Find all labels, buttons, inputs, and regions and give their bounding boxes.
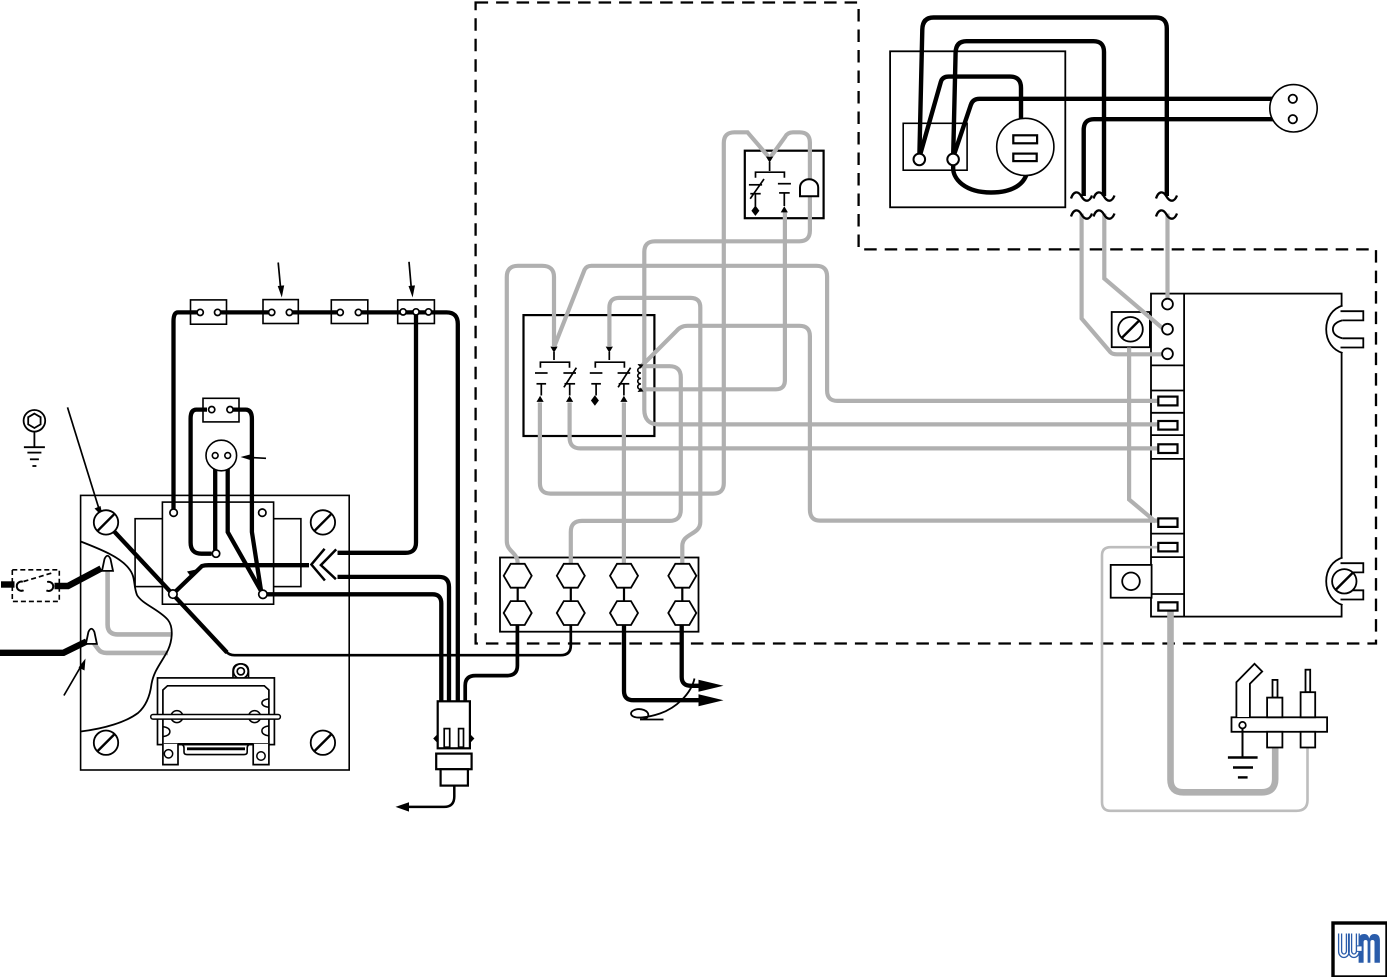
arrowhead on connector tail — [396, 802, 410, 811]
wire W9 relay coil top to strip terminal 2 — [571, 366, 681, 563]
wire chevron lower arm to plug connector pin 2 — [338, 577, 450, 702]
long arrow to ground screw — [68, 407, 100, 510]
limit switch S3 terminals — [337, 309, 343, 315]
thermostat cable from switch to strain relief 1 — [55, 569, 102, 587]
plug connector body — [438, 701, 470, 748]
wire blower prover right pin down — [228, 458, 261, 591]
relay K1 contact group 1 — [535, 352, 576, 396]
wire W11 line break 2 to module circle 2 — [1104, 214, 1162, 329]
gas valve outer body — [158, 678, 275, 745]
wire W4 relay coil top to module spade 4 — [642, 326, 1159, 521]
transformer mounting wings rectangle — [135, 519, 301, 587]
wire ground screw pigtail (diagonal) — [111, 528, 228, 653]
limit switch S2 box — [263, 300, 298, 324]
wire S5 left terminal U-loop to transformer center tap — [191, 410, 212, 554]
module U1 terminal column divider — [1183, 294, 1185, 617]
gas valve side notches — [163, 699, 269, 737]
junction box corner screw top-left — [94, 510, 118, 534]
arrow pointing to S4 — [409, 262, 411, 287]
Weil-McLain logo — [1333, 923, 1387, 977]
plug connector cap upper — [436, 754, 471, 770]
arrow pointing to blower prover — [249, 456, 266, 459]
receptacle lower slot — [1013, 154, 1036, 162]
wire service plug lower pin over to break 1 — [1084, 119, 1288, 196]
thermostat power cable stub — [1, 581, 15, 587]
limit switch S3 box — [331, 300, 368, 324]
wire loop receptacle lower slot to right terminal — [953, 162, 1028, 193]
module screw slot — [1122, 320, 1140, 338]
line-voltage junction box inner terminal plate — [903, 123, 967, 170]
pilot bracket ground lug — [1239, 722, 1246, 729]
gray pigtail G2 from strain relief 2 — [91, 640, 168, 653]
receptacle upper slot — [1013, 135, 1037, 143]
wire transformer lower-right tap to plug connector pin 1 — [267, 594, 441, 701]
wire strip terminal 4 bottom to field arrow — [682, 624, 701, 686]
field wiring arrowhead at strip terminal 3 — [699, 694, 724, 706]
module U1 column section dividers — [1151, 365, 1184, 594]
ignition module U1 body — [1151, 294, 1342, 617]
hex bolt ground symbol — [24, 410, 46, 466]
wire W13 module spade 5 to flame sensor (thin) — [1102, 547, 1308, 811]
strip terminal hex nuts column 2 — [557, 564, 585, 625]
wire strip terminal 1 bottom to plug connector pin 4 — [465, 624, 517, 702]
wire W12 line break 3 to module circle 1 — [1165, 214, 1169, 300]
strain relief cone 1 — [102, 556, 113, 571]
strip terminal hex nuts column 4 — [668, 564, 696, 625]
module lower block hole — [1122, 573, 1140, 591]
plug connector cap lower — [441, 769, 468, 785]
ground symbol at pilot — [1228, 758, 1258, 778]
module spade terminal 6 — [1158, 602, 1177, 610]
wire transformer lower-left tap to disconnect chevron — [176, 565, 310, 591]
wire W2 relay arm to module spade 1 — [555, 266, 1159, 401]
wire blower prover left pin down — [213, 458, 217, 551]
cable sheath outline inside junction box — [81, 542, 172, 732]
wire W1 relay coil-arm to strip terminal 1 — [507, 266, 554, 564]
blower prover pins — [212, 453, 218, 459]
wire W5 relay coil bottom to damper spade — [642, 211, 785, 389]
spill switch S4 terminals — [400, 309, 406, 315]
limit switch S1 box — [191, 300, 227, 324]
wire break symbol 3 — [1156, 192, 1177, 218]
wire S4 middle terminal to disconnect chevron — [338, 315, 417, 553]
wire break symbol 2 — [1094, 192, 1115, 218]
module terminal circle 1 — [1162, 299, 1173, 310]
wire W14 module spade 6 to igniter cable (thick) — [1171, 611, 1276, 793]
module spade terminal 3 — [1158, 444, 1177, 453]
wire left terminal to receptacle top — [921, 77, 1021, 153]
gas valve terminal circles on bar — [171, 711, 183, 723]
strip terminal hex nuts column 3 — [610, 564, 638, 625]
junction box corner screw bottom-left — [94, 731, 118, 755]
gas valve tab ring — [233, 664, 249, 679]
wire W6 relay arm to damper plug left — [540, 132, 768, 493]
module U1 top mounting ear — [1326, 306, 1363, 354]
wire W15 relay arm to strip terminal 3 — [622, 403, 626, 564]
gas valve mounting bar — [151, 715, 281, 720]
power cable 2 to strain relief 2 — [0, 642, 87, 653]
limit switch S1 terminals — [197, 309, 203, 315]
module U1 bottom mounting ear with screw — [1326, 558, 1363, 606]
pilot burner hood — [1236, 664, 1262, 717]
thermostat dashed box — [12, 570, 59, 602]
wire strip terminal 3 bottom to field arrow — [624, 624, 701, 700]
wire W8 damper plug right to module spade 2 — [644, 132, 1158, 424]
flame sensor electrode (right) — [1301, 670, 1316, 748]
gas valve clip bar — [179, 744, 253, 755]
thermostat switch blade (dashed) — [24, 573, 54, 582]
pilot burner bracket bar — [1232, 717, 1328, 732]
module screw terminal — [1118, 317, 1143, 342]
receptacle-box right terminal — [947, 154, 959, 166]
relay K1 coil — [638, 368, 641, 390]
damper plug D1 internals — [749, 162, 791, 207]
wire W7 relay arm to module spade 3 — [570, 403, 1158, 449]
terminal strip block — [500, 558, 699, 632]
wire W4b module screw terminal to spade 4 — [1129, 348, 1155, 522]
module spade terminal 1 — [1158, 397, 1177, 406]
gas valve clip bar inner line — [187, 747, 245, 750]
wire ground screw pigtail horizontal to strip terminal 2 bottom — [226, 624, 571, 655]
arrow pointing to S2 — [278, 263, 280, 288]
junction box corner screw top-right — [311, 510, 335, 534]
module terminal circle 2 — [1162, 324, 1173, 335]
module spade terminal 4 — [1158, 518, 1177, 527]
strain relief cone 2 — [86, 629, 97, 644]
wire S5 right terminal to transformer lower-right tap — [229, 410, 261, 591]
mini arrow on transformer-to-chevron wire — [187, 570, 196, 578]
module U1 lower mounting block — [1111, 565, 1152, 598]
gas valve screw holes — [164, 750, 172, 758]
service plug pin 1 — [1289, 95, 1297, 103]
quick disconnect chevron — [311, 549, 336, 581]
wire limit string left end down to transformer — [174, 312, 201, 509]
wire W10 line break 1 to module circle 3 — [1082, 214, 1162, 355]
relay K1 contact group 2 — [590, 352, 631, 396]
relay box K1 (circulator relay) — [524, 315, 655, 436]
low-voltage boundary (dashed outline) — [476, 3, 1376, 644]
service plug P1 body — [1270, 85, 1317, 132]
gas valve feet — [163, 744, 269, 765]
vent damper end switch S5 terminals — [209, 407, 215, 413]
junction box corner screw bottom-right — [311, 731, 335, 755]
plug connector tail wire with arrow — [401, 786, 455, 807]
wire hot lead receptacle-box left terminal up and over to break 3 — [919, 18, 1166, 197]
vent damper end switch S5 box — [203, 398, 239, 422]
service plug pin 2 — [1289, 115, 1297, 123]
igniter electrode (middle) — [1267, 680, 1282, 748]
main junction box — [81, 495, 350, 770]
plug connector key slots — [444, 729, 450, 748]
line-voltage junction box (outer) — [890, 51, 1065, 207]
module terminal circle 3 — [1162, 348, 1173, 359]
vent damper plug box D1 — [745, 151, 824, 219]
strip terminal hex nuts column 1 — [504, 564, 532, 625]
transformer tap circles — [170, 509, 177, 516]
wire S3 to S4 and S4 right end down to plug connector — [358, 312, 457, 701]
plug connector side latches — [433, 734, 438, 743]
damper plug D symbol — [800, 179, 818, 196]
receptacle-box left terminal — [914, 154, 926, 166]
arrow pointing to strain relief 2 — [64, 667, 81, 696]
ground wire from pilot bracket — [1242, 729, 1244, 758]
receptacle outline — [997, 118, 1054, 175]
transformer box — [162, 502, 273, 604]
wire S1 to S2 — [218, 310, 272, 314]
field wiring pigtail curl — [631, 679, 694, 720]
blower prover plug body — [206, 440, 237, 471]
thermostat switch hooks — [17, 582, 24, 591]
wire S2 to S3 — [289, 310, 340, 314]
spill switch S4 box (3 terminals) — [398, 300, 435, 324]
gas valve inner body — [163, 686, 269, 744]
wire right terminal to service plug upper pin — [955, 99, 1288, 153]
gray pigtail G1 from strain relief 1 — [108, 571, 172, 634]
module spade terminal 5 — [1158, 543, 1177, 552]
field wiring arrowhead at strip terminal 4 — [699, 680, 724, 692]
limit switch S2 terminals — [269, 309, 275, 315]
module spade terminal 2 — [1158, 421, 1177, 430]
wire receptacle-box right terminal up and over to break 2 — [953, 41, 1104, 196]
module U1 24V screw terminal block — [1112, 312, 1150, 347]
wire break symbol 1 — [1071, 192, 1092, 218]
wire W3 relay arm 2 to strip terminal 4 — [609, 298, 700, 564]
